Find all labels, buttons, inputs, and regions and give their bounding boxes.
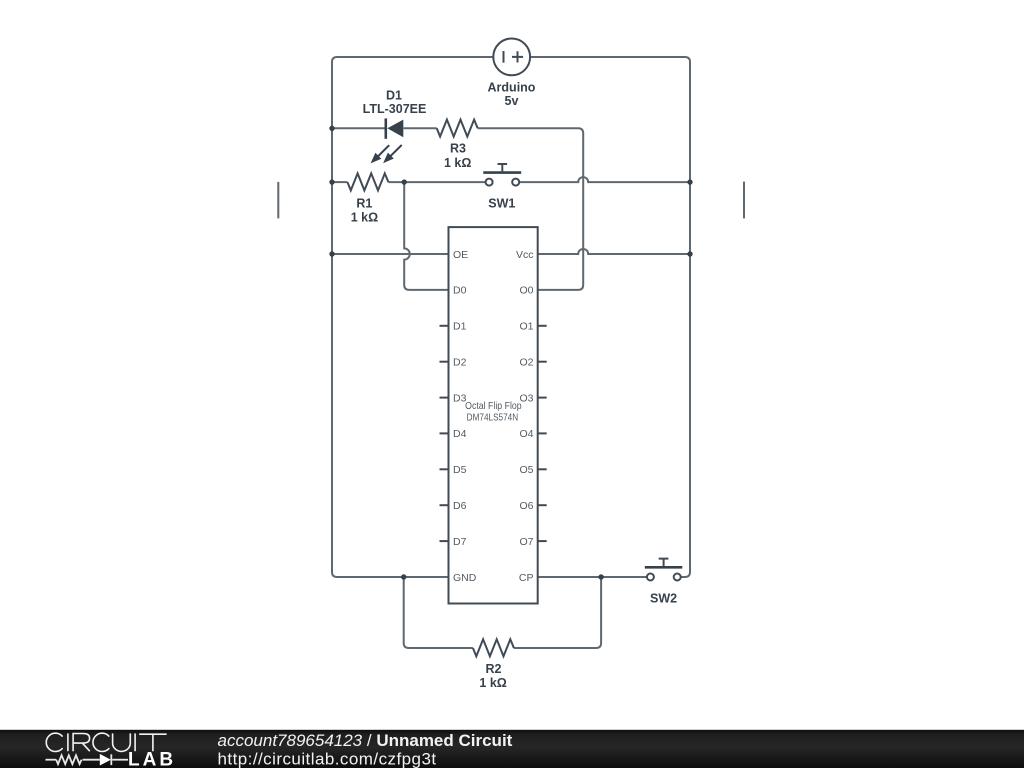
svg-text:D1: D1 (453, 321, 467, 333)
svg-text:1 kΩ: 1 kΩ (444, 156, 471, 170)
svg-text:D4: D4 (453, 428, 467, 440)
svg-text:D6: D6 (453, 500, 467, 512)
svg-text:O7: O7 (519, 536, 533, 548)
svg-text:1 kΩ: 1 kΩ (479, 676, 506, 690)
svg-text:O5: O5 (519, 464, 533, 476)
svg-text:D5: D5 (453, 464, 467, 476)
svg-text:D1: D1 (386, 89, 402, 103)
svg-text:Vcc: Vcc (516, 249, 534, 261)
svg-text:O1: O1 (519, 321, 533, 333)
svg-text:Arduino: Arduino (488, 80, 536, 94)
svg-text:D0: D0 (453, 285, 467, 297)
svg-text:LAB: LAB (128, 750, 176, 768)
svg-text:D7: D7 (453, 536, 467, 548)
svg-text:CP: CP (519, 572, 534, 584)
svg-text:O2: O2 (519, 357, 533, 369)
svg-text:GND: GND (453, 572, 477, 584)
svg-text:LTL-307EE: LTL-307EE (363, 102, 427, 116)
svg-text:SW2: SW2 (650, 591, 677, 605)
svg-text:D2: D2 (453, 357, 467, 369)
svg-text:SW1: SW1 (488, 196, 515, 210)
svg-text:R2: R2 (486, 662, 502, 676)
svg-text:OE: OE (453, 249, 468, 261)
svg-text:Octal Flip Flop: Octal Flip Flop (465, 400, 522, 412)
svg-text:http://circuitlab.com/czfpg3t: http://circuitlab.com/czfpg3t (218, 750, 437, 768)
svg-text:O4: O4 (519, 428, 533, 440)
svg-text:DM74LS574N: DM74LS574N (467, 411, 519, 423)
svg-text:account789654123 / Unnamed Cir: account789654123 / Unnamed Circuit (218, 731, 513, 750)
svg-text:1 kΩ: 1 kΩ (351, 210, 378, 224)
svg-text:5v: 5v (505, 94, 519, 108)
svg-text:O0: O0 (519, 285, 533, 297)
svg-text:R1: R1 (356, 197, 372, 211)
svg-text:R3: R3 (450, 142, 466, 156)
svg-text:O6: O6 (519, 500, 533, 512)
